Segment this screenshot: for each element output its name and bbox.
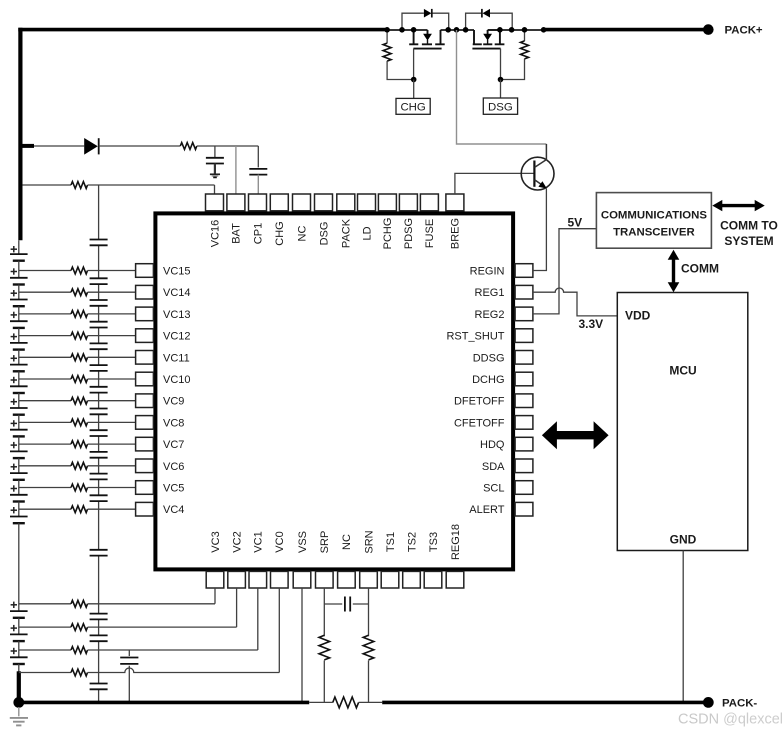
- wire VC4 to pin: [88, 508, 136, 510]
- svg-text:CHG: CHG: [400, 101, 425, 113]
- pin LD (top): [358, 194, 376, 241]
- wire VC16 row: [22, 184, 71, 186]
- terminal PACK-: [703, 697, 714, 708]
- resistor VC7 filter: [71, 441, 88, 448]
- block COMMUNICATIONS TRANSCEIVER: [596, 193, 711, 249]
- pin BAT (top): [227, 194, 245, 244]
- wire SRN pin down: [368, 588, 370, 636]
- resistor VC1 filter: [71, 647, 88, 654]
- resistor VC3 filter: [71, 600, 88, 607]
- diode CHG FET external diode: [402, 9, 449, 30]
- wire shunt left lead: [309, 701, 333, 703]
- battery cell 11: [10, 350, 28, 372]
- capacitor C-VC8: [90, 430, 108, 436]
- resistor BAT filter: [180, 143, 197, 150]
- pin DCHG (right): [472, 372, 533, 386]
- resistor SRP: [319, 635, 330, 660]
- svg-text:VC15: VC15: [163, 266, 191, 278]
- svg-text:VC7: VC7: [163, 439, 184, 451]
- pin VC9 (left): [136, 394, 185, 408]
- wire DSG gate to label: [500, 80, 502, 99]
- pin TS3 (bottom): [424, 532, 442, 588]
- resistor VC12 filter: [71, 332, 88, 339]
- svg-text:NC: NC: [296, 226, 308, 242]
- svg-text:TS2: TS2: [406, 532, 418, 552]
- svg-text:VC4: VC4: [163, 504, 184, 516]
- svg-text:DSG: DSG: [488, 101, 513, 113]
- IC U1 BQ76952 body: [155, 213, 513, 569]
- svg-text:GND: GND: [670, 533, 697, 547]
- resistor VC8 filter: [71, 419, 88, 426]
- label box DSG: [483, 98, 517, 114]
- svg-text:VC13: VC13: [163, 309, 191, 321]
- capacitor C-VC3: [90, 614, 108, 620]
- wire VC1 row: [19, 649, 71, 651]
- svg-text:TRANSCEIVER: TRANSCEIVER: [613, 226, 695, 238]
- svg-text:PACK+: PACK+: [725, 25, 763, 37]
- battery cell 9: [10, 393, 28, 415]
- battery cell 6: [10, 458, 28, 480]
- pin TS2 (bottom): [403, 532, 421, 588]
- wire cell-filter capacitor column: [98, 185, 100, 702]
- resistor VC4 filter: [71, 506, 88, 513]
- wire VC15 row: [19, 270, 71, 272]
- wire BAT+ left bus (thick vertical): [18, 28, 22, 241]
- svg-text:PACK: PACK: [341, 218, 353, 248]
- pin NC (bottom): [338, 534, 356, 588]
- pin PCHG (top): [378, 194, 396, 249]
- svg-text:PCHG: PCHG: [382, 218, 394, 250]
- wire VC4 row: [19, 508, 71, 510]
- wire VC16 to pin: [88, 185, 215, 194]
- transistor Q1 CHG N-FET: [409, 30, 445, 80]
- pin CP1 (top): [249, 194, 267, 244]
- capacitor C-VC15: [90, 278, 108, 284]
- capacitor BAT bypass: [206, 146, 224, 174]
- resistor VC6 filter: [71, 462, 88, 469]
- pin FUSE (top): [420, 194, 438, 248]
- battery cell 16 (top of stack): [10, 240, 28, 260]
- capacitor VC1 filter to VSS (second column): [120, 650, 138, 702]
- pin HDQ (right): [480, 437, 533, 451]
- pin VC3 (bottom): [206, 531, 224, 588]
- pin BREG (top): [446, 194, 464, 249]
- svg-text:DFETOFF: DFETOFF: [454, 396, 505, 408]
- svg-text:MCU: MCU: [669, 364, 696, 378]
- pin VC4 (left): [136, 502, 185, 516]
- wire VC11 row: [19, 356, 71, 358]
- svg-text:PACK-: PACK-: [722, 697, 757, 709]
- resistor VC0 filter: [71, 669, 88, 676]
- pin VC8 (left): [136, 416, 185, 430]
- pin VC12 (left): [136, 329, 191, 343]
- svg-text:CFETOFF: CFETOFF: [454, 417, 505, 429]
- svg-text:VC0: VC0: [274, 531, 286, 552]
- pin ALERT (right): [469, 502, 533, 516]
- wire BAT pin drop: [235, 146, 237, 194]
- wire VC3 row: [19, 603, 71, 605]
- wire VC5 row: [19, 487, 71, 489]
- battery cell 14: [10, 285, 28, 307]
- wire LD net (FET midpoint to transistor collector): [457, 30, 547, 144]
- wire REG1 to 3.3V (with hop): [533, 288, 617, 316]
- wire VC1 to pin: [88, 588, 258, 650]
- label 3.3V: [579, 317, 604, 331]
- svg-text:ALERT: ALERT: [469, 504, 505, 516]
- ground (BAT bypass): [210, 174, 220, 177]
- capacitor C-VC13: [90, 322, 108, 328]
- svg-text:VC2: VC2: [231, 531, 243, 552]
- wire MCU GND to PACK- rail: [682, 551, 684, 703]
- svg-text:REG1: REG1: [475, 287, 505, 299]
- pin VC16 (top): [206, 194, 224, 247]
- battery cell 10: [10, 371, 28, 393]
- svg-text:REG18: REG18: [450, 524, 462, 560]
- battery cell 15: [10, 261, 28, 285]
- svg-text:SRP: SRP: [319, 531, 331, 554]
- wire top rail thin segments through FETs: [387, 29, 543, 31]
- pin SDA (right): [482, 459, 533, 473]
- capacitor C-VC9: [90, 409, 108, 415]
- capacitor C-VC11: [90, 365, 108, 371]
- svg-text:VC3: VC3: [210, 531, 222, 552]
- junction dots on top rail: [384, 27, 546, 33]
- transistor Q3 NPN (REGIN pre-regulator): [521, 144, 554, 190]
- wire VC7 row: [19, 443, 71, 445]
- pin REG18 (bottom): [446, 524, 464, 588]
- capacitor C-VC12: [90, 343, 108, 349]
- pin VC11 (left): [136, 351, 190, 365]
- wire VC2 to pin: [88, 588, 237, 627]
- resistor VC9 filter: [71, 397, 88, 404]
- capacitor C-VC10: [90, 387, 108, 393]
- svg-text:TS3: TS3: [428, 532, 440, 552]
- resistor VC14 filter: [71, 289, 88, 296]
- battery cell 13: [10, 306, 28, 328]
- pin SRN (bottom): [360, 530, 378, 588]
- svg-text:VC12: VC12: [163, 331, 191, 343]
- svg-text:DDSG: DDSG: [473, 352, 505, 364]
- capacitor C-VC7: [90, 452, 108, 458]
- svg-text:CHG: CHG: [274, 221, 286, 245]
- wire VC6 to pin: [88, 465, 136, 467]
- svg-text:VSS: VSS: [297, 531, 309, 553]
- wire VC11 to pin: [88, 356, 136, 358]
- resistor SRN: [363, 635, 374, 660]
- pin VC14 (left): [136, 285, 191, 299]
- resistor VC16 filter: [71, 182, 88, 189]
- arrow COMM TO SYSTEM: [712, 200, 764, 211]
- pin VC5 (left): [136, 481, 185, 495]
- svg-text:PDSG: PDSG: [403, 218, 415, 249]
- svg-text:VC6: VC6: [163, 461, 184, 473]
- capacitor sense filter SRP-SRN: [324, 597, 368, 612]
- svg-text:HDQ: HDQ: [480, 439, 505, 451]
- wire VC12 row: [19, 335, 71, 337]
- svg-text:COMM TO: COMM TO: [720, 218, 778, 232]
- resistor VC10 filter: [71, 376, 88, 383]
- wire VC15 to pin: [88, 270, 136, 272]
- label COMM: [681, 262, 719, 276]
- ground (system earth): [10, 707, 28, 725]
- capacitor C-VC5: [90, 495, 108, 501]
- diode D1 (reverse protection): [84, 138, 99, 155]
- resistor VC15 filter: [71, 267, 88, 274]
- pin NC (top): [293, 194, 311, 241]
- wire VC13 row: [19, 313, 71, 315]
- pin VC7 (left): [136, 437, 185, 451]
- wire BAT+ stub: [20, 144, 34, 148]
- svg-text:VC14: VC14: [163, 287, 191, 299]
- pin VSS (bottom): [293, 531, 311, 588]
- wire BAT node: [197, 145, 258, 147]
- svg-text:VC8: VC8: [163, 417, 184, 429]
- svg-text:SRN: SRN: [363, 530, 375, 553]
- wire VC2 row: [19, 626, 71, 628]
- wire CHG gate to label: [413, 80, 415, 99]
- wire VC3 to pin: [88, 588, 215, 604]
- pin DFETOFF (right): [454, 394, 533, 408]
- svg-text:SCL: SCL: [483, 483, 504, 495]
- wire VSS pin to rail: [301, 588, 303, 702]
- svg-text:DSG: DSG: [318, 222, 330, 246]
- wire BREG to base: [455, 173, 534, 194]
- resistor VC11 filter: [71, 354, 88, 361]
- pin VC6 (left): [136, 459, 185, 473]
- capacitor C-VC14: [90, 300, 108, 306]
- pin CFETOFF (right): [454, 416, 533, 430]
- capacitor C-VC2: [90, 635, 108, 641]
- wire VC0 row (hops over filter cap): [19, 672, 71, 674]
- wire to diode: [34, 145, 84, 147]
- wire battery stack bottom to VC0 tap: [18, 664, 20, 672]
- pin VC0 (bottom): [271, 531, 289, 588]
- svg-text:5V: 5V: [568, 215, 583, 229]
- watermark: [678, 712, 783, 728]
- svg-text:VC5: VC5: [163, 483, 184, 495]
- svg-text:COMMUNICATIONS: COMMUNICATIONS: [601, 210, 707, 222]
- battery cell 12: [10, 328, 28, 350]
- wire VC9 to pin: [88, 400, 136, 402]
- svg-text:LD: LD: [361, 226, 373, 240]
- label PACK+: [725, 25, 763, 37]
- label PACK-: [722, 697, 757, 709]
- svg-text:VC10: VC10: [163, 374, 191, 386]
- battery cell 5: [10, 480, 28, 502]
- diode DSG FET external diode: [466, 9, 513, 30]
- resistor CHG gate: [383, 30, 414, 80]
- node CHG gate junction: [411, 77, 417, 83]
- svg-text:REG2: REG2: [475, 309, 505, 321]
- wire VC14 to pin: [88, 291, 136, 293]
- svg-text:SYSTEM: SYSTEM: [724, 234, 773, 248]
- wire SRP pin down: [323, 588, 325, 636]
- resistor VC13 filter: [71, 311, 88, 318]
- node DSG gate junction: [498, 77, 504, 83]
- svg-text:VC1: VC1: [253, 531, 265, 552]
- capacitor C-VC16: [90, 240, 108, 246]
- svg-text:TS1: TS1: [385, 532, 397, 552]
- wire VC5 to pin: [88, 487, 136, 489]
- svg-text:CP1: CP1: [252, 223, 264, 244]
- capacitor C-VC4: [90, 550, 108, 556]
- resistor shunt (current sense): [333, 697, 359, 708]
- pin SCL (right): [483, 481, 533, 495]
- svg-text:RST_SHUT: RST_SHUT: [446, 331, 504, 343]
- pin VC1 (bottom): [249, 531, 267, 588]
- svg-text:DCHG: DCHG: [472, 374, 504, 386]
- label COMM TO SYSTEM: [720, 218, 778, 247]
- resistor DSG gate: [501, 30, 529, 80]
- svg-text:SDA: SDA: [482, 461, 505, 473]
- pin PDSG (top): [399, 194, 417, 249]
- pin VC2 (bottom): [228, 531, 246, 588]
- node battery negative junction: [13, 697, 24, 708]
- wire VC14 row: [19, 291, 71, 293]
- pin VC10 (left): [136, 372, 191, 386]
- svg-text:COMM: COMM: [681, 262, 719, 276]
- pin VC13 (left): [136, 307, 191, 321]
- svg-text:NC: NC: [341, 534, 353, 550]
- wire VC6 row: [19, 465, 71, 467]
- svg-text:VC16: VC16: [209, 220, 221, 248]
- pin REG1 (right): [475, 285, 533, 299]
- capacitor C-VC6: [90, 474, 108, 480]
- svg-text:VC11: VC11: [163, 352, 190, 364]
- block MCU: [617, 293, 748, 551]
- battery cell 1: [10, 641, 28, 664]
- pin TS1 (bottom): [381, 532, 399, 588]
- wire VC8 to pin: [88, 421, 136, 423]
- svg-text:BREG: BREG: [450, 218, 462, 249]
- svg-text:FUSE: FUSE: [424, 219, 436, 248]
- battery cell 3: [10, 523, 28, 618]
- wire PACK- rail thick right segment: [382, 701, 708, 705]
- wire VC7 to pin: [88, 443, 136, 445]
- wire PACK+ top rail thick right segment: [544, 28, 709, 32]
- wire VSS thick stub to PACK- rail: [17, 671, 21, 702]
- wire REG2 to 5V rail: [533, 229, 597, 314]
- pin DSG (top): [315, 194, 333, 245]
- svg-text:BAT: BAT: [231, 223, 243, 244]
- label 5V: [568, 215, 583, 229]
- terminal PACK+: [703, 24, 714, 35]
- wire SRN resistor to rail: [368, 660, 370, 702]
- pin RST_SHUT (right): [446, 329, 532, 343]
- wire VC8 row: [19, 421, 71, 423]
- wire diode to resistor: [99, 145, 181, 147]
- transistor Q2 DSG N-FET: [472, 30, 504, 80]
- battery cell 8: [10, 415, 28, 437]
- pin REG2 (right): [475, 307, 533, 321]
- svg-text:REGIN: REGIN: [470, 266, 505, 278]
- wire SRP resistor to rail: [323, 660, 325, 702]
- wire VC13 to pin: [88, 313, 136, 315]
- wire shunt right lead: [359, 701, 383, 703]
- resistor VC5 filter: [71, 484, 88, 491]
- wire VC10 row: [19, 378, 71, 380]
- resistor VC2 filter: [71, 624, 88, 631]
- pin REGIN (right): [470, 264, 533, 278]
- battery cell 2: [10, 618, 28, 641]
- arrow COMM (transceiver to MCU): [668, 250, 680, 292]
- wire VC0 to pin with hop: [88, 588, 280, 673]
- pin DDSG (right): [473, 351, 533, 365]
- battery cell 4: [10, 502, 28, 524]
- arrow host digital interface (IC to MCU): [542, 421, 609, 449]
- svg-text:VC9: VC9: [163, 396, 184, 408]
- pin SRP (bottom): [316, 531, 334, 588]
- battery cell 7: [10, 436, 28, 458]
- wire emitter to REGIN: [533, 189, 547, 271]
- svg-text:3.3V: 3.3V: [579, 317, 604, 331]
- pin VC15 (left): [136, 264, 191, 278]
- capacitor C-VC0: [90, 684, 108, 690]
- wire VC9 row: [19, 400, 71, 402]
- label box CHG: [396, 98, 430, 114]
- capacitor CP1: [249, 146, 267, 194]
- wire PACK+ top rail thick left segment: [18, 28, 387, 32]
- svg-text:CSDN @qlexcel: CSDN @qlexcel: [678, 712, 783, 728]
- wire PACK- rail thick left segment: [19, 701, 309, 705]
- svg-text:VDD: VDD: [625, 309, 651, 323]
- pin PACK (top): [337, 194, 355, 248]
- pin CHG (top): [270, 194, 288, 246]
- wire VC10 to pin: [88, 378, 136, 380]
- wire VC12 to pin: [88, 335, 136, 337]
